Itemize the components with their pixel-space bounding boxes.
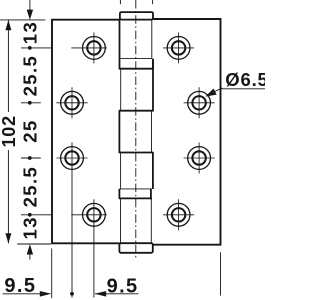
svg-text:9.5: 9.5 [4, 275, 36, 297]
svg-text:25: 25 [20, 119, 41, 142]
svg-text:102: 102 [0, 115, 19, 147]
svg-text:13: 13 [20, 21, 41, 44]
svg-text:25.5: 25.5 [20, 55, 41, 97]
svg-text:9.5: 9.5 [107, 276, 139, 298]
svg-text:Ø6.5: Ø6.5 [225, 69, 265, 90]
svg-text:13: 13 [20, 216, 41, 239]
svg-text:25.5: 25.5 [20, 166, 41, 208]
